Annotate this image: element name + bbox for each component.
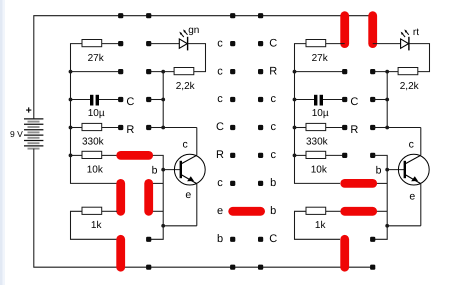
svg-text:R: R [216,149,224,161]
wire: node V4 stub to jumper WD right [376,210,387,212]
red jumper wire W1 vertical col1 rows6-7 [116,183,125,211]
junction node V1 row3 [161,98,165,102]
resistor R4 (10k) [82,151,104,175]
resistor R2 (2,2k) [174,68,196,92]
wire: base of Q1 [163,169,180,171]
socket terminal top rail col2 left [146,13,151,18]
socket terminal top rail middle col1 [230,13,235,18]
wire: emitter lead of Q2 [420,184,422,226]
socket terminal row8 col2 left [146,237,151,242]
socket terminal middle col2 row2 [258,69,263,74]
wire: emitter node to Q1 emitter [163,225,197,227]
socket terminal middle col2 row8 [258,237,263,242]
wire: LED D1 cathode down to 2.2k right end [188,44,206,72]
junction node V3 row2 [385,70,389,74]
wire: 1k left end down to jumper W3 top [71,211,118,239]
svg-text:R: R [269,65,277,77]
svg-text:10k: 10k [87,164,104,175]
socket terminal row2 col1 right [342,69,347,74]
svg-text:R: R [350,124,358,136]
resistor R8 (330k) [306,123,329,147]
junction on left rail row5 [69,154,73,158]
socket terminal middle col1 row4 [230,125,235,130]
svg-text:C: C [126,96,134,108]
wire: 1k right end to jumper WD left [326,210,341,212]
wire: right rail to capacitor C2 [295,99,315,101]
svg-text:2,2k: 2,2k [400,81,420,92]
wire: 1k left end down to jumper WE top right [295,211,341,239]
wire: 1k right end to jumper W1 bottom [102,210,117,212]
socket terminal row4 col2 left [146,125,151,130]
wire: left rail to 10k [71,154,83,156]
junction on right rail row2 [293,70,297,74]
red jumper wire WB vertical supply to row1 col2 right [368,16,377,44]
svg-text:2,2k: 2,2k [176,81,196,92]
wire: node V2 stub to jumper W2 top [153,182,163,184]
svg-text:C: C [216,121,224,133]
wire: 10k to jumper W4 [102,154,117,156]
socket terminal middle col2 row4 [258,125,263,130]
junction on left rail row4 [69,126,73,130]
wire: 27k to socket [102,43,121,45]
red jumper wire W2 vertical col2 rows6-7 [144,183,153,211]
svg-text:c: c [217,93,223,105]
wire: node V1 vertical 2.2k/C/R rows to collector [163,72,197,128]
resistor R9 (10k) [306,151,328,175]
resistor R7 (2,2k) [398,68,420,92]
svg-text:b: b [270,205,276,217]
socket terminal row4 col2 right [370,125,375,130]
red jumper wire WC horizontal row6 right [345,179,373,188]
wire: capacitor C1 to socket [99,99,121,101]
junction emitter node Q2 [385,224,389,228]
wire: node V2 jumper W4 down to emitter socket row8 [149,155,164,239]
junction on left rail row2 [69,70,73,74]
resistor R6 (27k) [306,40,329,64]
capacitor C1 (10µ) [88,95,105,119]
socket terminal middle col2 row3 [258,97,263,102]
wire: node V4 socket row5 down to emitter socket row8 right [373,155,388,239]
socket terminal row1 col1 left [118,41,123,46]
wire: 2.2k left end to socket through junction [149,71,174,73]
LED D1 (gn) [179,25,199,51]
wire: socket row4 to collector node [149,127,164,129]
wire: node V3 vertical to collector right [387,72,421,128]
red jumper wire WE vertical col1 rows8-9 right [340,239,349,267]
socket terminal middle col2 row1 [258,41,263,46]
socket terminal row4 col1 right [342,125,347,130]
junction on left rail row3 [69,98,73,102]
junction on right rail row4 [293,126,297,130]
wire: right rail from 27k down to jumper WC left [295,44,341,184]
svg-text:b: b [217,233,223,245]
red jumper wire WA vertical supply to row1 col1 right [340,16,349,44]
svg-text:10k: 10k [311,164,328,175]
svg-text:c: c [270,149,276,161]
junction emitter node Q1 [161,224,165,228]
svg-text:1k: 1k [91,220,103,231]
wire: left rail to 330k [71,127,83,129]
socket terminal bottom rail middle col2 [258,265,263,270]
red jumper wire W5 middle row7 e-b link [233,207,261,216]
wire: socket row3 to node V3 [373,99,388,101]
svg-text:C: C [269,233,277,245]
socket terminal bottom rail middle col1 [230,265,235,270]
svg-text:c: c [217,177,223,189]
svg-text:1k: 1k [315,220,327,231]
socket terminal row3 col2 left [146,97,151,102]
socket terminal middle col1 row1 [230,41,235,46]
svg-text:R: R [126,124,134,136]
svg-text:c: c [270,93,276,105]
socket terminal bottom rail left [146,265,151,270]
socket terminal middle col1 row3 [230,97,235,102]
wire: emitter node to Q2 emitter [387,225,421,227]
svg-text:gn: gn [188,25,199,36]
resistor R3 (330k) [82,123,105,147]
wire: collector lead of Q1 [196,128,198,156]
socket terminal top rail middle col2 [258,13,263,18]
wire: 2.2k left end to socket through junction right [373,71,398,73]
socket terminal top rail col1 left [118,13,123,18]
socket terminal row5 col1 right [342,153,347,158]
svg-text:e: e [409,191,415,203]
svg-text:10µ: 10µ [312,108,329,119]
svg-text:b: b [270,177,276,189]
resistor R5 (1k) [82,207,102,231]
junction node V1 row4 [161,126,165,130]
wire: LED D2 cathode down to 2.2k right end [409,44,429,72]
junction base node Q2 [385,168,389,172]
wire: 10k to socket right [326,154,345,156]
wire: left rail from 27k down to jumper W1 top [71,44,117,184]
socket terminal middle col1 row2 [230,69,235,74]
socket terminal middle col2 row5 [258,153,263,158]
transistor Q2 (NPN) [398,154,429,185]
svg-text:c: c [270,121,276,133]
wire: left rail to capacitor C1 [71,99,91,101]
junction node V3 row3 [385,98,389,102]
junction node V1 row2 [161,70,165,74]
socket terminal row2 col1 left [118,69,123,74]
battery B1 (9 V) [24,119,43,149]
junction on right rail row3 [293,98,297,102]
socket terminal middle col2 row6 [258,181,263,186]
socket terminal bottom rail right [370,265,375,270]
svg-text:b: b [376,165,382,177]
svg-text:b: b [152,165,158,177]
socket terminal middle col1 row6 [230,181,235,186]
resistor R1 (27k) [82,40,105,64]
socket terminal row8 col2 right [370,237,375,242]
page background left margin strip [0,0,3,285]
svg-text:c: c [217,65,223,77]
wire: socket to LED D1 anode [149,43,180,45]
red jumper wire WD horizontal row7 right [345,207,373,216]
wire: right rail to socket row2 [295,71,345,73]
junction on right rail row5 [293,154,297,158]
socket terminal row3 col1 right [342,97,347,102]
svg-text:330k: 330k [82,137,105,148]
wire: capacitor C2 to socket [323,99,345,101]
LED D2 (rt) [401,27,420,50]
svg-text:e: e [185,189,191,201]
svg-text:C: C [269,37,277,49]
wire: jumper WB bottom to LED D2 anode [373,43,401,45]
wire: node V4 stub to jumper WC right [376,182,387,184]
wire: 330k to socket [102,127,121,129]
wire: right rail to 330k [295,127,307,129]
socket terminal middle col1 row5 [230,153,235,158]
resistor R10 (1k) [306,207,326,231]
wire: right rail to 10k [295,154,307,156]
junction base node Q1 [161,168,165,172]
wire: battery + up to top supply rail, rail to right [34,16,373,119]
wire: battery - down to bottom supply rail, rail to right [34,149,373,268]
wire: emitter lead of Q1 [196,184,198,226]
svg-text:C: C [350,96,358,108]
red jumper wire W4 row5 [121,151,149,160]
svg-text:27k: 27k [88,53,105,64]
svg-text:c: c [409,139,414,151]
wire: 330k to socket right [326,127,345,129]
transistor Q1 (NPN) [174,154,205,185]
svg-text:e: e [217,205,223,217]
wire: socket row3 to node V1 [149,99,164,101]
svg-text:9 V: 9 V [10,129,23,139]
svg-text:330k: 330k [306,137,329,148]
svg-text:c: c [217,37,223,49]
svg-text:10µ: 10µ [88,108,105,119]
socket terminal row2 col2 left [146,69,151,74]
svg-text:c: c [182,139,187,151]
socket terminal row3 col1 left [118,97,123,102]
wire: 27k to jumper WA bottom [326,43,345,45]
socket terminal row2 col2 right [370,69,375,74]
socket terminal row1 col2 left [146,41,151,46]
svg-text:+: + [26,104,32,116]
socket terminal middle col1 row8 [230,237,235,242]
wire: socket row4 to collector node right [373,127,388,129]
socket terminal row3 col2 right [370,97,375,102]
socket terminal row4 col1 left [118,125,123,130]
svg-text:rt: rt [413,27,419,38]
wire: base of Q2 [387,169,404,171]
wire: collector lead of Q2 [420,128,422,156]
socket terminal row5 col2 right [370,153,375,158]
svg-text:27k: 27k [312,53,329,64]
capacitor C2 (10µ) [312,95,329,119]
junction node V3 row4 [385,126,389,130]
wire: node V2 stub to jumper W2 bottom [153,210,163,212]
wire: left rail to socket row2 [71,71,121,73]
red jumper wire W3 vertical col1 rows8-9 [116,239,125,267]
